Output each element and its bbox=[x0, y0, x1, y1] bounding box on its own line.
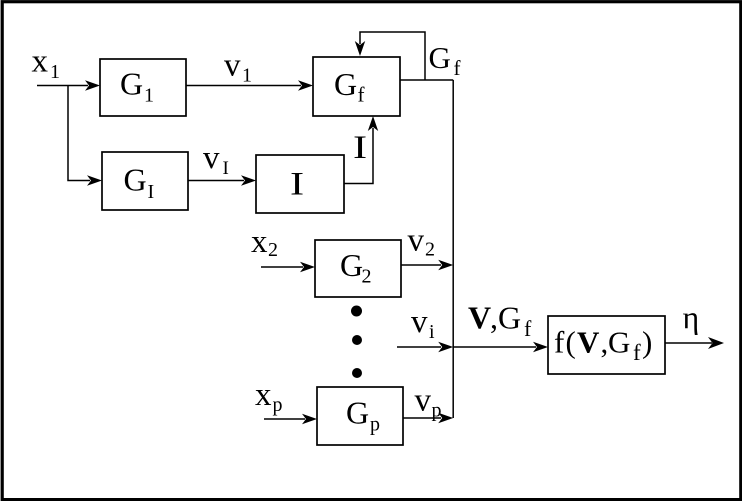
block I bbox=[256, 155, 344, 213]
svg-text:x: x bbox=[255, 377, 272, 413]
arrowhead into I bbox=[241, 175, 256, 185]
block f(V,Gf) bbox=[548, 316, 665, 374]
block G2 bbox=[315, 240, 401, 297]
wire x2 input bbox=[261, 266, 303, 268]
svg-text:G: G bbox=[334, 66, 357, 102]
wire branch from x1 down to GI bbox=[68, 86, 90, 181]
svg-text:I: I bbox=[223, 158, 229, 179]
svg-text:f: f bbox=[554, 325, 565, 360]
svg-text:p: p bbox=[273, 394, 283, 416]
arrowhead vp into bus bbox=[438, 413, 453, 423]
svg-text:V: V bbox=[577, 325, 600, 360]
svg-text:,G: ,G bbox=[490, 300, 521, 336]
svg-text:1: 1 bbox=[50, 61, 60, 83]
wire Gf feedback loop bbox=[360, 32, 425, 80]
label v2 bbox=[408, 223, 436, 261]
arrowhead vi into bus bbox=[438, 342, 453, 352]
label x1 bbox=[32, 44, 61, 83]
svg-text:i: i bbox=[429, 321, 435, 343]
svg-text:I: I bbox=[353, 129, 367, 166]
wire v1 from G1 to Gf bbox=[186, 85, 301, 87]
svg-text:p: p bbox=[370, 414, 380, 436]
arrowhead into Gp bbox=[302, 414, 317, 424]
svg-text:x: x bbox=[251, 224, 268, 260]
dots ellipsis bbox=[351, 306, 362, 379]
label I bbox=[353, 129, 367, 166]
svg-text:G: G bbox=[608, 325, 630, 360]
wire v2 from G2 to bus bbox=[401, 264, 441, 266]
svg-text:f: f bbox=[358, 83, 365, 107]
block Gp bbox=[317, 387, 403, 445]
label xp bbox=[255, 377, 283, 416]
wire vp from Gp to bus bbox=[403, 417, 441, 419]
svg-text:I: I bbox=[148, 181, 155, 203]
label vI bbox=[203, 140, 229, 179]
arrowhead into G1 bbox=[85, 80, 100, 90]
svg-text:2: 2 bbox=[268, 239, 278, 261]
wire x1 input bbox=[37, 85, 88, 87]
block GI bbox=[102, 152, 188, 210]
arrowhead v2 into bus bbox=[438, 260, 453, 270]
label vi bbox=[411, 304, 435, 343]
arrowhead eta bbox=[708, 337, 724, 349]
svg-text:G: G bbox=[124, 162, 147, 198]
svg-text:x: x bbox=[32, 44, 49, 80]
wire bus vertical bbox=[452, 80, 454, 418]
svg-text:v: v bbox=[203, 140, 220, 176]
svg-text:1: 1 bbox=[242, 65, 252, 87]
svg-text:v: v bbox=[224, 48, 241, 84]
label Gf bbox=[429, 40, 461, 80]
svg-text:p: p bbox=[432, 400, 442, 422]
arrowhead into G2 bbox=[300, 262, 315, 272]
wire V,Gf from bus to f box bbox=[453, 346, 536, 348]
svg-text:I: I bbox=[290, 166, 304, 203]
wire xp input bbox=[264, 418, 305, 420]
arrowhead down into Gf top bbox=[355, 41, 365, 56]
svg-text:(: ( bbox=[566, 325, 576, 360]
svg-text:G: G bbox=[429, 40, 451, 75]
wire vi to bus bbox=[397, 346, 441, 348]
wire eta output bbox=[665, 342, 712, 344]
svg-text:η: η bbox=[683, 299, 700, 335]
svg-text:v: v bbox=[408, 223, 425, 259]
label v1 bbox=[224, 48, 252, 87]
block G1 bbox=[100, 59, 186, 116]
svg-text:): ) bbox=[642, 325, 652, 360]
svg-text:V: V bbox=[468, 300, 491, 336]
svg-text:G: G bbox=[346, 395, 369, 431]
arrowhead into f box bbox=[533, 342, 548, 352]
arrowhead into Gf bbox=[298, 80, 313, 90]
label x2 bbox=[251, 224, 278, 261]
wire vI from GI to I bbox=[188, 180, 244, 182]
svg-text:G: G bbox=[340, 247, 363, 283]
arrowhead into GI bbox=[87, 175, 102, 185]
svg-text:f: f bbox=[454, 56, 461, 80]
svg-text:v: v bbox=[411, 304, 428, 340]
svg-text:2: 2 bbox=[362, 266, 372, 288]
label V,Gf bbox=[468, 300, 532, 342]
svg-text:2: 2 bbox=[425, 239, 435, 261]
wire I output up into Gf bbox=[344, 128, 373, 184]
wire Gf output to bus bbox=[400, 79, 453, 81]
block Gf bbox=[313, 57, 400, 116]
svg-text:f: f bbox=[524, 316, 532, 341]
svg-text:1: 1 bbox=[144, 85, 154, 107]
svg-text:G: G bbox=[120, 66, 143, 102]
arrowhead up into Gf bottom bbox=[368, 116, 378, 131]
svg-text:v: v bbox=[415, 383, 432, 419]
label vp bbox=[415, 383, 442, 422]
svg-text:f: f bbox=[633, 340, 641, 365]
